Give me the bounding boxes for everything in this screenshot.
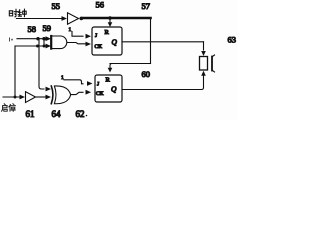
clock label 时钟 [9, 9, 26, 17]
flip-flop FF2 [95, 75, 122, 102]
junction on clock bus [108, 16, 112, 20]
svg-text:CK: CK [96, 91, 104, 97]
XOR input arrows [46, 87, 52, 92]
wire Q1 output to speaker column [122, 41, 204, 43]
svg-text:58: 58 [28, 24, 37, 34]
svg-text:64: 64 [52, 109, 62, 119]
AND input arrows [46, 36, 52, 41]
arrowhead into inverter [62, 16, 68, 21]
arrowhead into buffer [20, 95, 26, 100]
svg-text:CK: CK [95, 44, 103, 50]
buffer output wire [36, 96, 46, 98]
svg-text:57: 57 [142, 1, 151, 11]
speaker diaphragm bar [211, 57, 213, 71]
wire vertical from line B to start wire [14, 46, 16, 97]
node line A (top input) [17, 38, 46, 40]
junction node 58 [36, 37, 39, 40]
svg-text:Q: Q [112, 38, 118, 47]
arrow into speaker bottom [201, 71, 206, 76]
wire FF1 R pin [109, 19, 111, 23]
svg-text:62: 62 [76, 109, 85, 119]
flip-flop FF1 [92, 27, 122, 55]
svg-text:55: 55 [52, 1, 61, 11]
wire clock input [17, 18, 63, 20]
arrow into FF1 CK [86, 42, 92, 47]
start label 启停 [2, 104, 16, 112]
wire short vertical x44 [43, 39, 45, 46]
AND gate G1 [51, 36, 67, 49]
svg-text:61: 61 [26, 109, 35, 119]
svg-text:Q: Q [111, 85, 117, 94]
wire speaker bottom to Q2 [122, 76, 204, 90]
svg-text:56: 56 [96, 0, 105, 10]
junction node 59 [42, 37, 45, 40]
XOR output wire [71, 92, 84, 94]
arrow into FF2 CK [86, 90, 92, 95]
speaker element (piezo) [200, 57, 208, 71]
thick clock bus wire [83, 17, 151, 20]
wire start input [3, 96, 19, 98]
svg-text:R: R [105, 29, 110, 36]
wire to FF2 R [110, 64, 151, 69]
inverter U1 [68, 13, 79, 24]
svg-text:59: 59 [43, 23, 52, 33]
svg-text:63: 63 [228, 35, 237, 45]
buffer U2 [26, 92, 36, 103]
wire vertical from clock bus down [150, 19, 152, 64]
wire long vertical to XOR [39, 39, 44, 89]
XOR gate G2 [51, 86, 53, 104]
svg-text:R: R [106, 77, 111, 84]
node line B (bottom input) [15, 45, 46, 47]
svg-text:60: 60 [142, 69, 151, 79]
wire into speaker top [203, 42, 205, 50]
faint input label [9, 38, 11, 41]
svg-text:1: 1 [69, 27, 72, 33]
AND output wire [67, 43, 85, 44]
junction dots on line B [36, 45, 39, 48]
